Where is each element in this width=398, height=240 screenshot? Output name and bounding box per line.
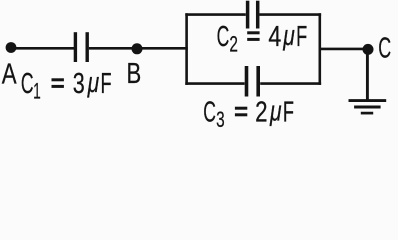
svg-text:μ: μ bbox=[282, 20, 294, 52]
svg-text:F: F bbox=[283, 96, 294, 128]
svg-text:C: C bbox=[203, 96, 216, 129]
svg-text:3: 3 bbox=[216, 108, 225, 132]
svg-text:μ: μ bbox=[87, 67, 99, 99]
svg-text:A: A bbox=[2, 59, 18, 90]
svg-text:2: 2 bbox=[229, 33, 238, 57]
svg-text:4: 4 bbox=[268, 20, 281, 53]
svg-text:μ: μ bbox=[269, 95, 281, 127]
svg-text:B: B bbox=[126, 58, 141, 89]
svg-text:C: C bbox=[378, 32, 391, 65]
svg-text:2: 2 bbox=[255, 97, 267, 128]
svg-text:1: 1 bbox=[33, 78, 41, 103]
svg-text:F: F bbox=[296, 21, 307, 53]
svg-text:C: C bbox=[217, 21, 230, 54]
svg-text:3: 3 bbox=[73, 68, 85, 100]
svg-text:F: F bbox=[100, 68, 111, 100]
svg-text:C: C bbox=[21, 68, 34, 101]
